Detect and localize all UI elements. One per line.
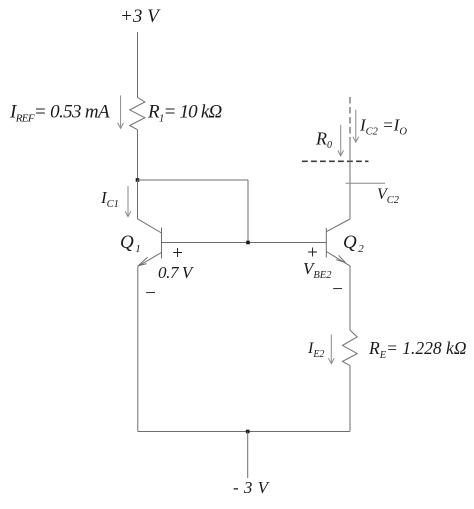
- svg-text:0.7 V: 0.7 V: [158, 263, 195, 282]
- wire Q2 emitter down to RE: [349, 266, 351, 330]
- base rail wire Q1 to Q2: [162, 242, 327, 244]
- wire node A to feedback corner: [138, 179, 249, 181]
- dashed Ro probe line horizontal: [302, 160, 369, 162]
- wire from +3V to R1: [137, 32, 139, 98]
- current arrow I_REF: [118, 95, 124, 128]
- node A junction dot: [136, 178, 140, 182]
- transistor Q2: [326, 219, 350, 266]
- arrow R_0: [338, 125, 344, 156]
- resistor R1: [130, 98, 145, 130]
- bottom junction dot: [246, 430, 250, 434]
- wire R1 bottom to node A: [137, 130, 139, 180]
- wire Q1 emitter down: [137, 266, 139, 431]
- wire corner down to base rail: [247, 180, 249, 243]
- svg-text:- 3 V: - 3 V: [233, 478, 271, 497]
- current arrow I_E2: [328, 335, 334, 364]
- wire stub to -3V: [247, 432, 249, 479]
- svg-text:+: +: [171, 243, 184, 264]
- bottom rail wire: [138, 431, 350, 433]
- svg-text:+3 V: +3 V: [120, 6, 161, 27]
- wire RE bottom down: [349, 366, 351, 432]
- transistor Q1: [138, 219, 162, 266]
- current arrow I_C2: [353, 110, 359, 143]
- dashed Ro probe line vertical: [349, 97, 351, 140]
- svg-text:R1= 10 kΩ: R1= 10 kΩ: [147, 102, 222, 125]
- svg-text:−: −: [331, 279, 344, 300]
- svg-text:−: −: [144, 283, 157, 304]
- wire node A down to Q1 collector: [137, 180, 139, 219]
- resistor RE: [343, 330, 358, 365]
- current arrow I_C1: [125, 186, 131, 217]
- tick V_C2: [346, 182, 386, 184]
- base rail junction dot: [246, 241, 250, 245]
- wire Q2 collector vertical: [349, 139, 351, 220]
